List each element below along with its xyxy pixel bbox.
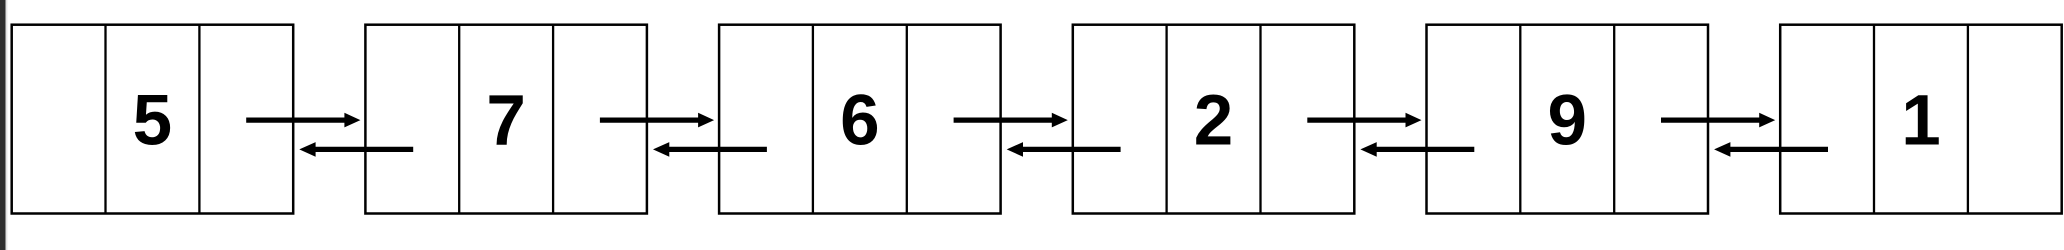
node 1 box [12,25,294,214]
node 2 divider 2 (data|next) [552,25,554,214]
prev pointer arrow node 6 to node 5 [1714,142,1828,157]
node 5 divider 1 (prev|data) [1519,25,1521,214]
prev pointer arrow node 2 to node 1 [299,142,413,157]
node 3 divider 2 (data|next) [906,25,908,214]
next pointer arrow node 1 to node 2 [246,113,360,128]
prev pointer arrow node 3 to node 2 [653,142,767,157]
svg-text:1: 1 [1901,82,1941,161]
node 2 box [365,25,647,214]
left sidebar light sliver [6,0,8,250]
next pointer arrow node 5 to node 6 [1661,113,1775,128]
svg-text:6: 6 [840,82,880,161]
node 4 divider 2 (data|next) [1259,25,1261,214]
svg-text:2: 2 [1194,82,1234,161]
node 6 divider 1 (prev|data) [1873,25,1875,214]
node 2 divider 1 (prev|data) [458,25,460,214]
node 5 box [1427,25,1709,214]
svg-text:9: 9 [1547,82,1587,161]
node 1 divider 1 (prev|data) [104,25,106,214]
node 4 divider 1 (prev|data) [1165,25,1167,214]
svg-text:5: 5 [133,82,173,161]
node 6 box [1780,25,2062,214]
next pointer arrow node 4 to node 5 [1307,113,1421,128]
svg-text:7: 7 [486,82,526,161]
prev pointer arrow node 5 to node 4 [1360,142,1474,157]
node 3 divider 1 (prev|data) [812,25,814,214]
node 4 box [1073,25,1355,214]
node 5 divider 2 (data|next) [1613,25,1615,214]
next pointer arrow node 2 to node 3 [600,113,714,128]
left sidebar dark edge bar [0,0,6,250]
prev pointer arrow node 4 to node 3 [1007,142,1121,157]
node 3 box [719,25,1001,214]
node 1 divider 2 (data|next) [198,25,200,214]
next pointer arrow node 3 to node 4 [954,113,1068,128]
node 6 divider 2 (data|next) [1967,25,1969,214]
